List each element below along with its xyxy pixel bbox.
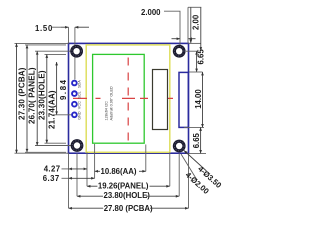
dim 26.70 PANEL line	[26, 45, 28, 152]
dim 26.70 PANEL extension lines	[25, 44, 66, 46]
dim 6.37 line	[69, 177, 95, 179]
dim 23.80 HOLE right seg	[146, 195, 179, 197]
svg-text:SCL: SCL	[78, 91, 82, 98]
dim 27.80 PCBA right seg	[150, 207, 189, 209]
dim 23.30 HOLE extension lines	[35, 50, 74, 52]
PCB board outline	[69, 43, 189, 153]
ext panel left down	[86, 152, 88, 186]
hole leader line 1	[184, 151, 207, 172]
svg-text:9.84: 9.84	[59, 78, 68, 100]
hole leader line 2	[181, 154, 197, 180]
panel outline (yellow)	[86, 45, 170, 152]
svg-text:19.26(PANEL): 19.26(PANEL)	[98, 181, 149, 190]
svg-text:27.30 (PCBA): 27.30 (PCBA)	[17, 67, 26, 120]
svg-text:21.74(AA): 21.74(AA)	[47, 90, 56, 129]
pad column extension line up	[74, 27, 76, 79]
ext AA left down	[94, 144, 96, 178]
dim 14.00 line	[202, 72, 204, 127]
dim 2.00 arrow b	[200, 7, 202, 50]
pad P2 SCL	[71, 90, 78, 97]
mounting hole top-right	[173, 45, 186, 58]
dim 21.74 AA extension lines	[45, 53, 67, 55]
dim 2.00 top bar	[188, 6, 201, 8]
svg-text:27.80 (PCBA): 27.80 (PCBA)	[104, 204, 153, 213]
dim 10.86 AA right tail	[139, 170, 146, 172]
vertical centerline (red dashed)	[127, 58, 129, 142]
ext board left down	[68, 153, 70, 208]
dim 9.84 extension to GND pad	[53, 114, 72, 116]
dim 6.65 lower line	[200, 127, 202, 153]
mounting hole bottom-right	[173, 140, 186, 153]
svg-text:4.27: 4.27	[44, 164, 61, 173]
ext hole left down	[76, 153, 78, 196]
pad P1 SDA	[71, 80, 78, 87]
svg-text:23.80(HOLE): 23.80(HOLE)	[104, 191, 151, 200]
dim 2.000 leader	[164, 11, 180, 45]
svg-text:6.37: 6.37	[43, 174, 60, 183]
svg-text:1.50: 1.50	[35, 24, 53, 33]
board right ext up	[187, 7, 189, 43]
board left extension line up	[68, 27, 70, 43]
dim 6.37 leader	[62, 177, 69, 179]
ext hole right down	[178, 153, 180, 196]
svg-text:SDA: SDA	[78, 80, 82, 88]
dim 1.50 right tail	[75, 26, 89, 28]
FPC connector rectangle	[153, 70, 168, 130]
hole center ext right	[186, 50, 198, 52]
svg-text:6.65: 6.65	[196, 49, 205, 65]
right edge connector (navy)	[179, 72, 188, 127]
dim 19.26 PANEL right seg	[150, 185, 170, 187]
dim 23.80 HOLE left seg	[77, 195, 103, 197]
board top ext right	[189, 42, 202, 44]
ext AA right down	[145, 145, 147, 172]
dim 4.27 line	[69, 168, 88, 170]
dim 27.80 PCBA left seg	[69, 207, 104, 209]
board bottom ext right	[189, 153, 206, 155]
svg-text:Adafruit 0.96" OLED: Adafruit 0.96" OLED	[110, 86, 114, 121]
dim 21.74 AA line	[46, 54, 48, 143]
svg-text:10.86(AA): 10.86(AA)	[101, 167, 137, 176]
horizontal centerline (red chain)	[73, 97, 173, 99]
svg-text:2.000: 2.000	[141, 8, 161, 17]
svg-text:GND: GND	[78, 111, 82, 120]
dim 27.30 PCBA extension lines	[15, 42, 69, 44]
active area outline (green)	[93, 54, 145, 143]
dim 6.65 upper line	[196, 51, 198, 72]
dim 1.50 left tail	[61, 26, 69, 28]
svg-text:VCC: VCC	[78, 101, 82, 109]
pad P4 GND	[71, 112, 78, 119]
pad P3 VCC	[71, 101, 78, 108]
dim 9.84 line	[56, 62, 58, 115]
connector bottom ext right	[184, 126, 204, 128]
mounting hole bottom-left	[71, 139, 84, 152]
svg-text:2.00: 2.00	[192, 14, 201, 30]
dim 23.30 HOLE line	[36, 51, 38, 145]
dim 10.86 AA line	[95, 170, 100, 172]
svg-text:128x64 I2C: 128x64 I2C	[105, 101, 109, 121]
dim 2.000 right tail	[189, 38, 196, 40]
ext board right down	[188, 153, 190, 208]
dim 19.26 PANEL left seg	[87, 185, 97, 187]
connector top ext right	[189, 71, 203, 73]
svg-text:26.70( PANEL): 26.70( PANEL)	[27, 67, 36, 124]
dim 1.50 leader	[52, 26, 62, 28]
mounting hole top-left	[70, 45, 83, 58]
dim 2.000 left tail	[172, 38, 181, 40]
svg-text:23.30(HOLE): 23.30(HOLE)	[37, 70, 46, 120]
svg-text:6.65: 6.65	[192, 132, 201, 148]
dim 2.00 arrow a	[190, 7, 192, 43]
ext panel right down	[169, 152, 171, 186]
dim 4.27 leader	[62, 168, 69, 170]
dim 27.30 PCBA line	[16, 43, 18, 153]
svg-text:14.00: 14.00	[194, 89, 203, 109]
